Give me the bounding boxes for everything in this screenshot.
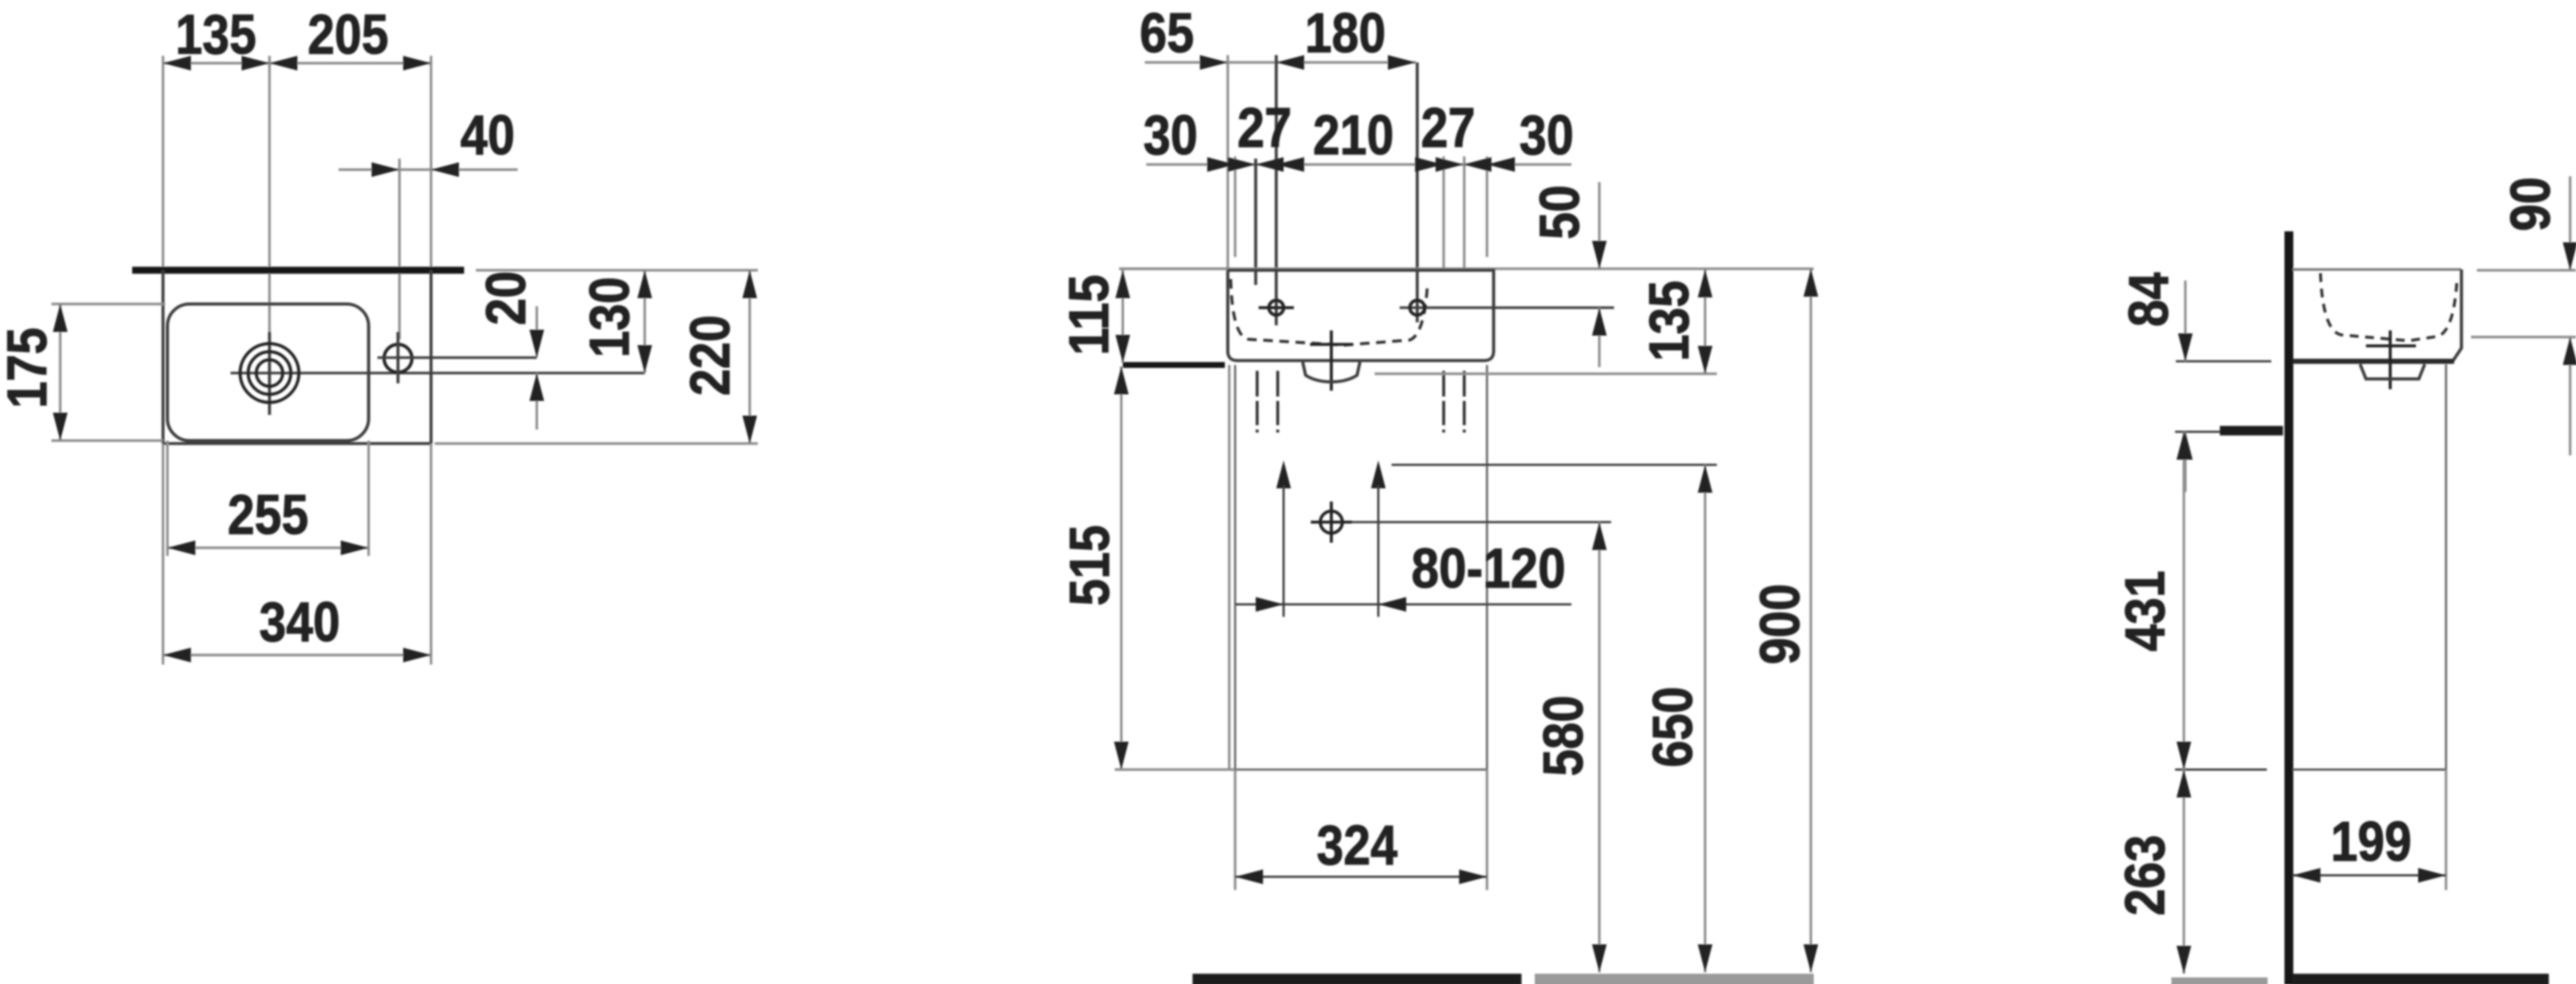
svg-text:431: 431: [2114, 571, 2177, 651]
ext 324 left lower: [1234, 770, 1236, 890]
ext line drain center x367: [268, 56, 270, 332]
dim 20 upper segment: [535, 306, 538, 357]
ext bowl bottom left: [51, 439, 163, 441]
siphon cup (side): [2360, 364, 2425, 379]
hanger arrow right: [1371, 460, 1386, 488]
arrow 431 top: [2177, 432, 2191, 460]
arrow 340 right: [403, 648, 431, 662]
drain crosshair horizontal: [231, 372, 645, 375]
dim 263 line: [2182, 770, 2185, 974]
arrow 180 right: [1388, 55, 1416, 70]
arrow 115 bottom: [1115, 335, 1130, 363]
arrow 80-120 left: [1256, 597, 1284, 612]
hanger left drop line: [1283, 485, 1285, 617]
ext 220 bottom: [435, 442, 758, 444]
ext line 220 top: [476, 269, 758, 271]
dim 199 line: [2293, 875, 2446, 877]
arrow 40 left outside: [372, 162, 399, 177]
svg-text:199: 199: [2331, 811, 2412, 873]
outer rect left edge: [162, 270, 164, 444]
tap2 cross hbar + ref to 50: [1400, 306, 1614, 309]
front view dim row1 65/180: [1145, 61, 1416, 63]
svg-text:515: 515: [1059, 525, 1121, 606]
arrow 515 top: [1114, 366, 1129, 394]
svg-text:40: 40: [460, 104, 515, 167]
svg-text:50: 50: [1529, 185, 1591, 239]
svg-text:27: 27: [1237, 97, 1292, 159]
arrow 135mid top: [1698, 269, 1712, 297]
dim 80-120 line: [1235, 604, 1571, 606]
svg-text:900: 900: [1749, 584, 1812, 665]
svg-text:180: 180: [1305, 2, 1386, 65]
bolt1 left edge line: [1254, 159, 1257, 285]
hanger right drop line: [1378, 485, 1380, 617]
arrow 175 top: [53, 304, 68, 332]
ref 90 top: [2477, 269, 2576, 271]
arrow 580 bottom: [1592, 944, 1607, 972]
ext 199 right: [2445, 770, 2447, 890]
dim 130 line: [643, 270, 645, 373]
arrow 90 top: [2563, 242, 2576, 270]
svg-text:135: 135: [1638, 281, 1701, 361]
drain vertical (side): [2389, 330, 2392, 389]
ext 324-left above: [1234, 156, 1236, 257]
floor bar black (front view): [1193, 974, 1522, 984]
arrow 84 bottom: [2178, 432, 2193, 460]
svg-text:263: 263: [2114, 835, 2177, 916]
svg-text:27: 27: [1421, 97, 1475, 159]
ext 324-right above: [1486, 156, 1488, 257]
bolt2 dashed hole left: [1442, 371, 1445, 435]
outer rect right edge: [430, 270, 433, 444]
arrow 900 bottom: [1803, 944, 1818, 972]
svg-text:255: 255: [228, 484, 308, 546]
arrow 90 bottom: [2563, 337, 2576, 365]
pedestal front edge (side): [2445, 364, 2447, 770]
dim 515 line: [1120, 366, 1122, 770]
dim 115 line: [1121, 270, 1124, 363]
bolt2 left edge line: [1442, 156, 1444, 272]
siphon cup under basin: [1303, 362, 1360, 382]
dim 900 line: [1809, 269, 1812, 972]
svg-text:115: 115: [1058, 275, 1121, 355]
drain circle inner: [256, 360, 283, 386]
svg-text:65: 65: [1140, 2, 1194, 65]
dim line 40: [339, 168, 518, 170]
arrow 580 top: [1592, 522, 1607, 550]
row2 arrow b1: [1256, 157, 1284, 172]
arrow 135 left: [163, 56, 191, 70]
outer rect bottom edge: [163, 442, 431, 445]
main top extension line: [1119, 267, 1814, 269]
pedestal top ref left of wall: [2175, 769, 2267, 771]
arrow 263 top: [2177, 770, 2191, 797]
svg-text:135: 135: [176, 4, 256, 66]
drain cross vertical (front): [1330, 330, 1333, 391]
hanger bolt bar (side): [2220, 426, 2283, 435]
arrow 199 left: [2293, 868, 2320, 883]
ref line basin underside left: [2176, 361, 2271, 363]
floor bar gray (front view): [1535, 974, 1814, 984]
arrow 205 right: [403, 56, 431, 70]
ref line bolt level: [2175, 431, 2220, 433]
bowl rounded rect: [167, 304, 369, 441]
arrow 650 top: [1698, 465, 1712, 493]
row2 arrow e2: [1436, 157, 1464, 172]
bowl dashed interior (side): [2320, 273, 2457, 341]
dim 135mid line: [1704, 269, 1706, 374]
arrow 220 bottom: [742, 416, 757, 444]
arrow 431 bottom: [2177, 742, 2191, 770]
ext line 115 top: [1119, 267, 1228, 269]
dim 220 line: [748, 270, 750, 444]
pedestal top line (side): [2293, 769, 2446, 771]
arrow 20 bottom: [529, 373, 544, 401]
svg-text:84: 84: [2118, 272, 2180, 327]
dim 580 line: [1598, 522, 1600, 972]
drain circle middle: [248, 352, 291, 394]
tap1 cross hbar: [1259, 306, 1294, 309]
ext 255 right: [367, 441, 369, 556]
ext line right edge x587 upper: [430, 56, 432, 270]
bolt1 dashed hole right: [1276, 371, 1279, 435]
front view dim row2 30/27/210/27/30: [1146, 163, 1571, 165]
arrow 324 right: [1459, 869, 1487, 884]
washbasin top view - dim line 135/205: [163, 62, 431, 64]
basin left ext below: [1228, 365, 1230, 770]
arrow 50 top: [1592, 241, 1607, 269]
arrow 20 top: [529, 330, 544, 358]
row2 arrow c: [1276, 157, 1304, 172]
arrow 115 top: [1115, 270, 1130, 298]
arrow 650 bottom: [1698, 944, 1712, 972]
faucet hole vbar: [397, 332, 399, 383]
tap1 cross circle: [1269, 300, 1284, 315]
floor bar gray (side view): [2171, 977, 2268, 984]
svg-text:220: 220: [679, 315, 742, 396]
arrow 515 bottom: [1114, 742, 1129, 770]
arrow 84 top: [2178, 333, 2193, 361]
svg-text:175: 175: [0, 328, 59, 408]
row1 corner down at tap2: [1416, 62, 1419, 322]
svg-text:650: 650: [1642, 687, 1704, 767]
arrow 263 bottom: [2177, 946, 2191, 974]
dim 650 line: [1704, 465, 1706, 972]
row2 arrow d: [1415, 157, 1443, 172]
svg-text:80-120: 80-120: [1411, 538, 1566, 600]
clearance box right: [1486, 365, 1488, 770]
row2 arrow a: [1207, 157, 1235, 172]
svg-text:580: 580: [1533, 695, 1595, 776]
dim 90 lower segment: [2569, 337, 2571, 455]
arrow 199 right: [2418, 868, 2446, 883]
arrow 255 left: [167, 540, 195, 555]
faucet hole circle: [384, 344, 412, 372]
tap1 center line: [1275, 55, 1278, 325]
dim 255 line: [167, 546, 369, 549]
arrow 65 outside left: [1200, 55, 1228, 70]
dim 324 line: [1235, 876, 1487, 878]
svg-text:324: 324: [1317, 814, 1397, 877]
bolt2 right edge line: [1463, 156, 1465, 272]
ref line 515 bottom: [1115, 768, 1235, 770]
arrow 180 left: [1276, 55, 1304, 70]
bowl dashed interior: [1231, 279, 1428, 345]
trap symbol circle: [1320, 511, 1342, 533]
arrow 40 right outside: [431, 162, 459, 177]
ext bowl top left: [51, 303, 165, 305]
arrow 80-120 right: [1378, 597, 1406, 612]
arrow 255 right: [341, 540, 369, 555]
dim 84 lower segment: [2184, 432, 2186, 492]
arrow 220 top: [742, 270, 757, 298]
thick ref elbow basin underside: [1123, 362, 1225, 368]
arrow 135mid bottom: [1698, 346, 1712, 374]
dim 50 lower segment: [1598, 308, 1600, 367]
row2 arrow f: [1487, 157, 1515, 172]
basin side top edge: [2293, 268, 2461, 271]
svg-text:205: 205: [308, 4, 388, 66]
drain circle outer: [240, 344, 299, 402]
ext 255 left: [166, 441, 168, 556]
clearance box bottom: [1235, 769, 1487, 771]
ext line left edge x222 upper: [162, 56, 164, 270]
arrow 175 bottom: [53, 413, 68, 441]
trap ref line to 580: [1352, 521, 1611, 524]
hanger level ref line: [1392, 464, 1717, 466]
dim 50 upper segment: [1598, 182, 1600, 269]
arrow 135 right: [242, 56, 269, 70]
arrow 900 top: [1803, 269, 1818, 297]
ref line 135mid bottom: [1375, 372, 1717, 375]
svg-text:30: 30: [1519, 104, 1574, 167]
svg-text:90: 90: [2500, 177, 2562, 231]
dim 84 upper segment: [2184, 281, 2186, 361]
wall line thick (top view): [132, 267, 464, 274]
ext 324 right lower: [1486, 770, 1488, 890]
row2 arrow b2: [1228, 157, 1256, 172]
dim 340 line: [163, 654, 431, 656]
svg-text:20: 20: [475, 271, 538, 325]
basin side front face: [2453, 269, 2461, 361]
dim 90 upper segment: [2569, 176, 2571, 270]
wall line (side view): [2284, 231, 2293, 984]
bolt1 dashed hole left: [1256, 371, 1259, 435]
svg-text:340: 340: [259, 591, 340, 654]
arrow 340 left: [163, 648, 191, 662]
drain hbar (side): [2366, 344, 2416, 347]
svg-text:30: 30: [1143, 104, 1198, 167]
ext line faucet x544: [398, 159, 400, 339]
tap2 cross circle: [1410, 300, 1425, 315]
svg-text:210: 210: [1313, 104, 1394, 167]
arrow 130 bottom: [637, 345, 652, 373]
drain crosshair vertical: [268, 332, 271, 415]
basin side bottom thick: [2293, 359, 2454, 364]
hanger arrow left: [1276, 460, 1291, 488]
arrow 50 bottom: [1592, 308, 1607, 336]
arrow 324 left: [1235, 869, 1263, 884]
dim 20 lower segment: [535, 373, 538, 430]
ext 340 left: [162, 444, 164, 665]
ext 340 right: [430, 444, 432, 665]
floor bar black (side view): [2293, 974, 2549, 984]
ref 90 bowl bottom: [2471, 336, 2576, 338]
svg-text:130: 130: [579, 277, 641, 358]
trap symbol hbar: [1311, 521, 1352, 524]
dim 431 line: [2182, 432, 2185, 770]
trap symbol vbar: [1330, 502, 1333, 543]
ext basin left edge above: [1226, 55, 1229, 269]
bolt2 dashed hole right: [1463, 371, 1466, 435]
row2 arrow e1: [1464, 157, 1491, 172]
arrow 130 top: [637, 270, 652, 298]
dim 175 line: [59, 304, 61, 441]
faucet hole hbar + ref line to 20dim: [377, 356, 537, 359]
drain cross hbar (front): [1310, 343, 1353, 346]
basin front outline: [1228, 270, 1494, 361]
clearance box left: [1234, 365, 1237, 770]
arrow 205 left: [269, 56, 297, 70]
